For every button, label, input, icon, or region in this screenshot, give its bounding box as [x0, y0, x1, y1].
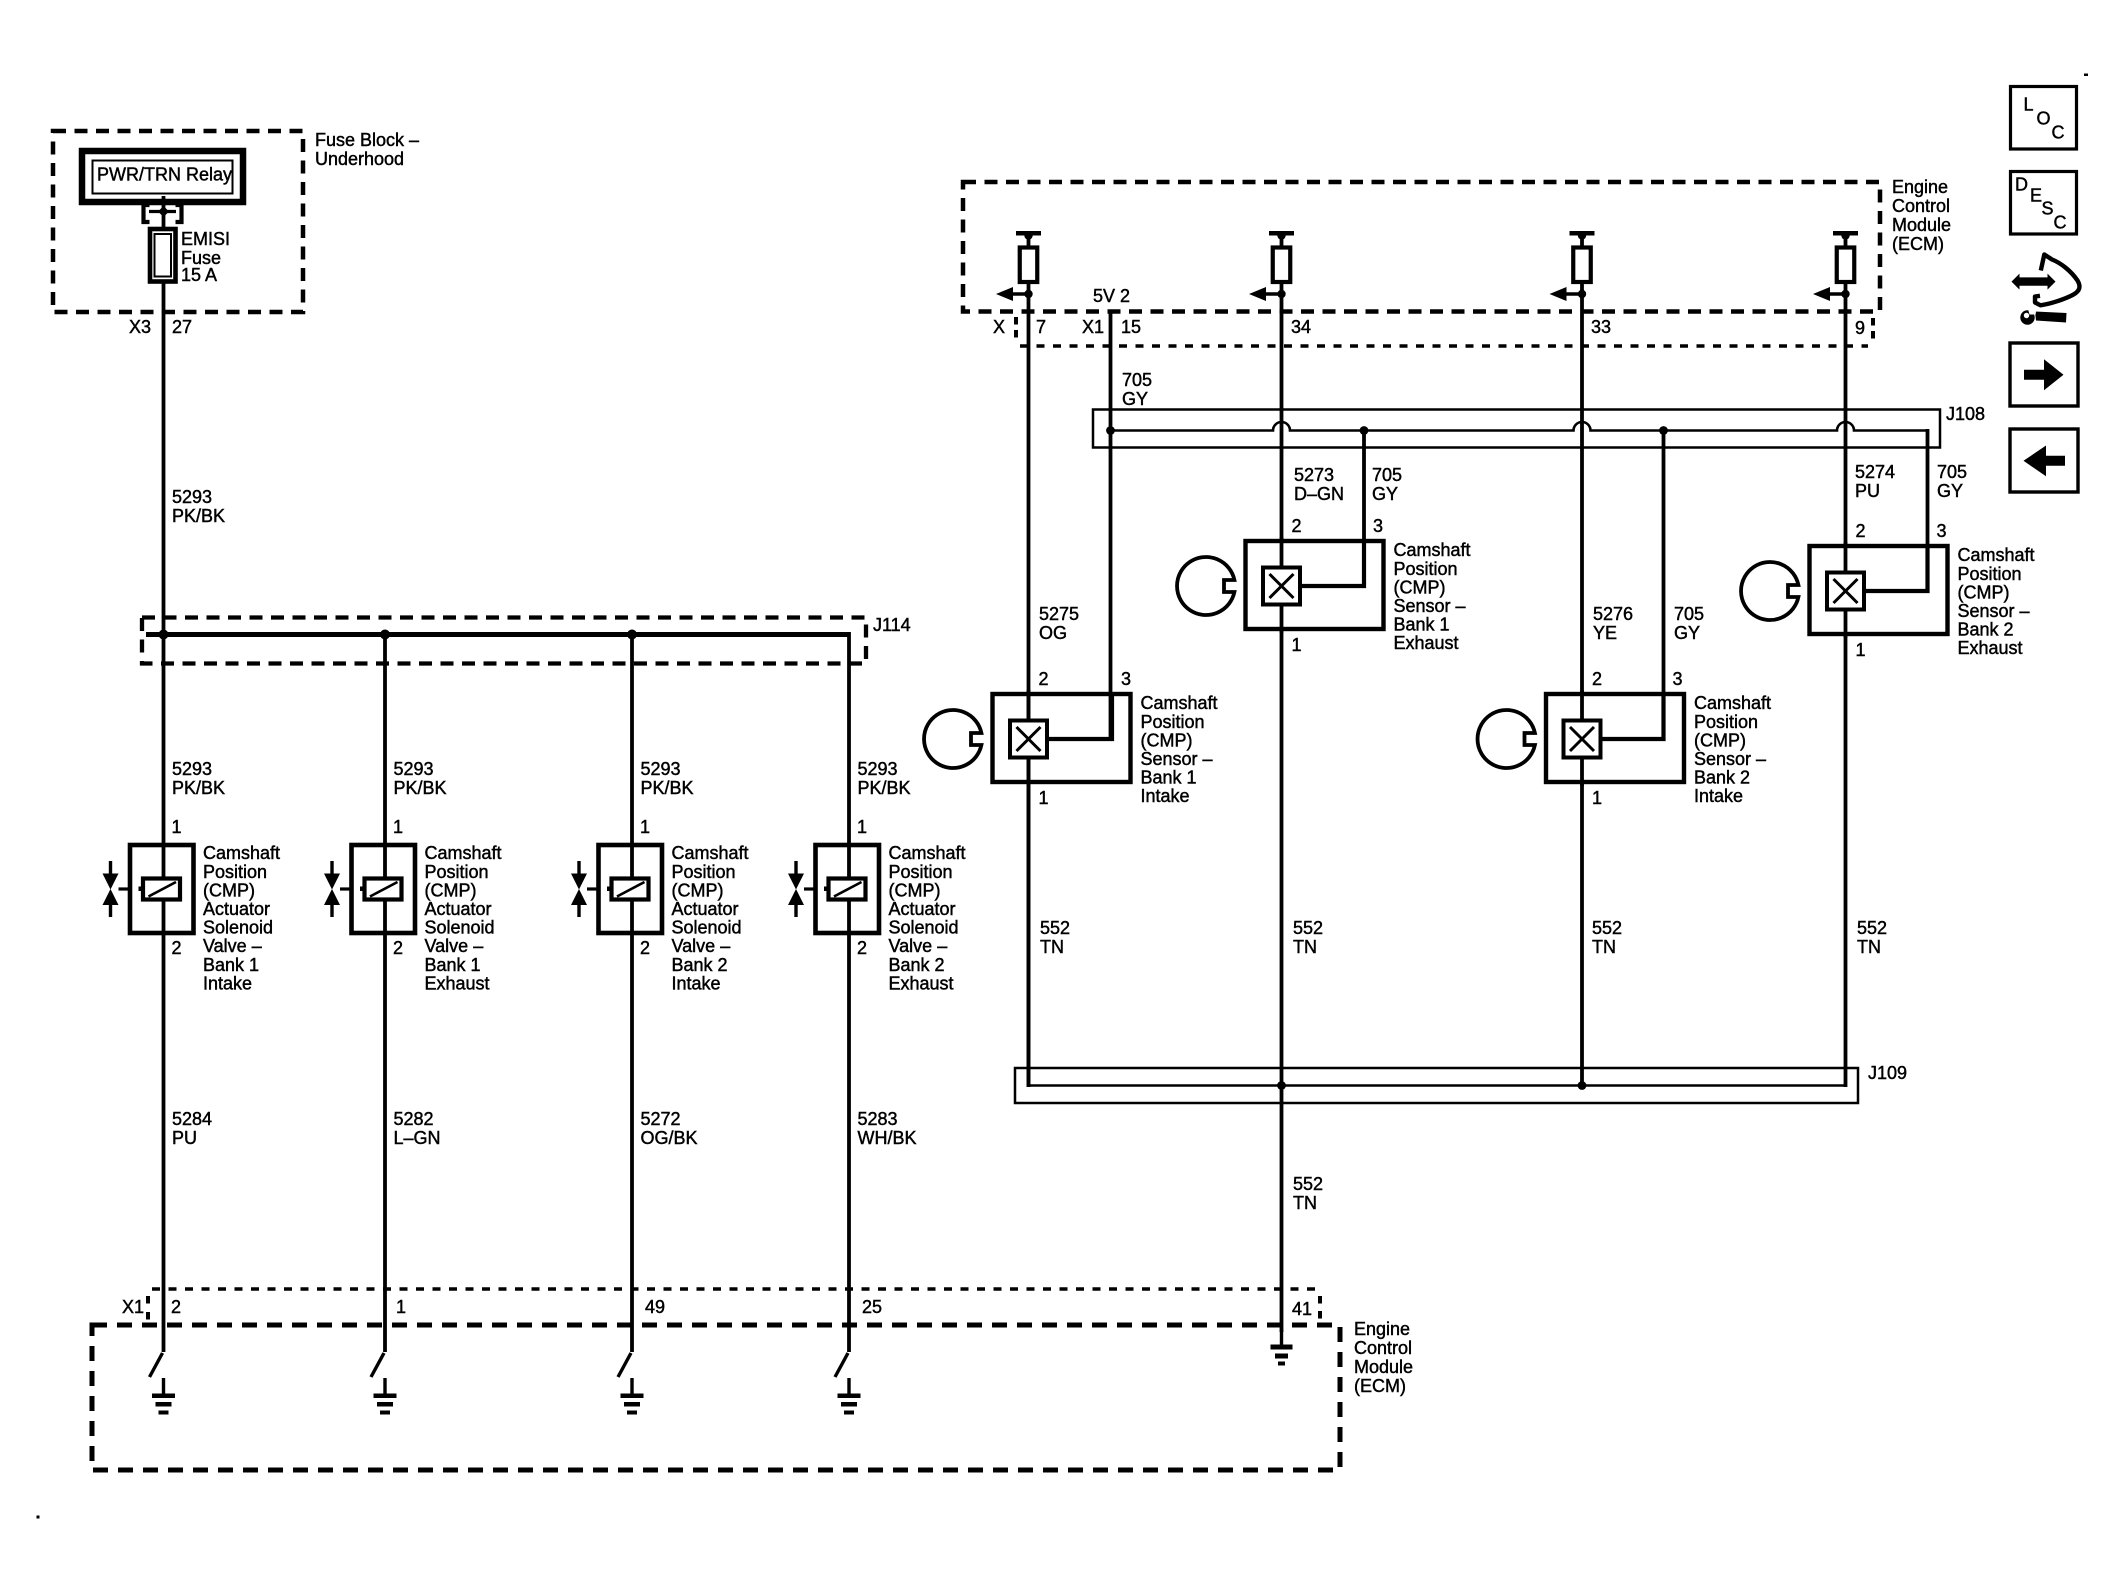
svg-text:PK/BK: PK/BK	[641, 778, 694, 798]
CMP actuator solenoid valve Bank 2 Exhaust	[788, 845, 879, 933]
ECM top connector dotted line	[1020, 344, 1868, 348]
svg-text:Position: Position	[1141, 712, 1205, 732]
wire 5293 PK/BK from fuse to J114	[162, 281, 166, 637]
wire 705 GY J108 to B1 exhaust sensor pin3	[1362, 429, 1366, 587]
svg-text:2: 2	[1856, 521, 1866, 541]
svg-text:Exhaust: Exhaust	[1394, 633, 1459, 653]
CMP sensor Bank 1 Intake pins 2,3	[1039, 669, 1132, 689]
svg-text:Actuator: Actuator	[672, 899, 739, 919]
ground symbol 4	[838, 1378, 861, 1415]
svg-text:YE: YE	[1593, 623, 1617, 643]
CMP sensor Bank 2 Intake body	[1546, 694, 1684, 782]
label Camshaft Position (CMP) Actuator Solenoid Valve Bank 1 Exhaust	[425, 843, 502, 993]
splice pack J114	[142, 618, 866, 664]
svg-text:Position: Position	[889, 862, 953, 882]
svg-text:(CMP): (CMP)	[1958, 582, 2010, 602]
svg-text:O: O	[2037, 109, 2051, 129]
svg-text:Solenoid: Solenoid	[889, 918, 959, 938]
svg-text:Engine: Engine	[1892, 177, 1948, 197]
svg-text:OG: OG	[1039, 623, 1067, 643]
svg-text:Intake: Intake	[1694, 786, 1743, 806]
wire 705 GY pin15 5V to J108	[1109, 310, 1113, 432]
ECM internal signal arrow 2	[1249, 287, 1286, 301]
svg-text:Camshaft: Camshaft	[1394, 540, 1471, 560]
svg-text:X: X	[993, 317, 1005, 337]
svg-text:1: 1	[172, 817, 182, 837]
ground symbol 1	[152, 1378, 175, 1415]
svg-text:27: 27	[172, 317, 192, 337]
svg-text:33: 33	[1591, 317, 1611, 337]
svg-text:PU: PU	[1855, 481, 1880, 501]
svg-text:Exhaust: Exhaust	[889, 973, 954, 993]
svg-text:1: 1	[396, 1297, 406, 1317]
svg-text:3: 3	[1937, 521, 1947, 541]
svg-text:Control: Control	[1354, 1338, 1412, 1358]
next page arrow icon button	[2010, 343, 2078, 406]
svg-text:2: 2	[393, 938, 403, 958]
ECM internal switch to ground pin 2	[371, 1353, 384, 1377]
svg-text:Valve –: Valve –	[672, 936, 731, 956]
reluctor wheel of CMP sensor Bank 2 Intake	[1478, 710, 1535, 768]
svg-text:705: 705	[1372, 465, 1402, 485]
wire through solenoid 4	[847, 846, 851, 933]
svg-text:5V 2: 5V 2	[1093, 286, 1130, 306]
ECM internal switch to ground pin 1	[150, 1353, 163, 1377]
svg-text:41: 41	[1292, 1299, 1312, 1319]
wire through CMP sensor Bank 2 Intake	[1580, 690, 1584, 786]
svg-text:5272: 5272	[641, 1109, 681, 1129]
ECM bottom connector dotted line	[152, 1287, 1318, 1291]
relay output terminal bracket connector	[144, 205, 182, 222]
DESC icon button	[2011, 172, 2077, 235]
svg-text:Valve –: Valve –	[889, 936, 948, 956]
svg-text:(CMP): (CMP)	[1394, 577, 1446, 597]
svg-text:5293: 5293	[858, 759, 898, 779]
ECM internal signal arrow 3	[1550, 287, 1587, 301]
svg-text:(CMP): (CMP)	[203, 880, 255, 900]
wire 5293 PK/BK branch 2	[383, 632, 387, 846]
svg-text:X3: X3	[129, 317, 151, 337]
wire through solenoid 3	[630, 846, 634, 933]
label Camshaft Position (CMP) Sensor Bank 2 Exhaust	[1958, 545, 2035, 658]
svg-text:3: 3	[1121, 669, 1131, 689]
svg-text:Module: Module	[1892, 215, 1951, 235]
fuse block underhood dashed box	[53, 131, 303, 312]
svg-text:Valve –: Valve –	[203, 936, 262, 956]
svg-text:PK/BK: PK/BK	[858, 778, 911, 798]
wire 5293 PK/BK branch 4	[847, 632, 851, 846]
wire from relay to fuse	[162, 196, 166, 232]
svg-text:Actuator: Actuator	[889, 899, 956, 919]
svg-text:Sensor –: Sensor –	[1958, 601, 2030, 621]
svg-text:Underhood: Underhood	[315, 149, 404, 169]
svg-text:Solenoid: Solenoid	[203, 918, 273, 938]
svg-text:Camshaft: Camshaft	[1141, 693, 1218, 713]
svg-text:5282: 5282	[394, 1109, 434, 1129]
label Camshaft Position (CMP) Sensor Bank 2 Intake	[1694, 693, 1771, 806]
svg-text:Actuator: Actuator	[425, 899, 492, 919]
svg-text:(CMP): (CMP)	[889, 880, 941, 900]
svg-text:Module: Module	[1354, 1357, 1413, 1377]
wire 552 TN B2 exhaust sensor to J109	[1844, 634, 1848, 1087]
svg-text:5275: 5275	[1039, 604, 1079, 624]
svg-text:5274: 5274	[1855, 462, 1895, 482]
LOC icon button	[2011, 87, 2077, 150]
svg-text:L: L	[2024, 95, 2034, 115]
svg-text:X1: X1	[1082, 317, 1104, 337]
ECM internal switch to ground pin 4	[835, 1353, 848, 1377]
CMP sensor Bank 1 Exhaust body	[1246, 541, 1384, 629]
svg-text:49: 49	[645, 1297, 665, 1317]
label Engine Control Module (ECM) bottom	[1354, 1319, 1413, 1396]
svg-text:Camshaft: Camshaft	[889, 843, 966, 863]
svg-text:15: 15	[1121, 317, 1141, 337]
svg-text:5283: 5283	[858, 1109, 898, 1129]
svg-text:Bank 1: Bank 1	[1394, 615, 1450, 635]
svg-text:5293: 5293	[172, 759, 212, 779]
CMP sensor Bank 2 Exhaust body	[1810, 546, 1948, 634]
svg-text:Position: Position	[425, 862, 489, 882]
tiny reference tick top right	[2084, 74, 2088, 77]
svg-text:552: 552	[1293, 918, 1323, 938]
svg-text:552: 552	[1293, 1174, 1323, 1194]
svg-text:(CMP): (CMP)	[672, 880, 724, 900]
swap/compare tool icon	[2012, 255, 2080, 325]
wire 5273 D-GN pin34 to B1 exhaust sensor	[1280, 280, 1284, 543]
svg-text:E: E	[2030, 186, 2042, 206]
svg-text:5293: 5293	[641, 759, 681, 779]
wire 5272 OG/BK to ECM	[630, 933, 634, 1352]
CMP actuator solenoid valve Bank 1 Intake	[103, 845, 194, 933]
svg-text:C: C	[2052, 123, 2065, 143]
wire 5275 OG pin7 to B1 intake sensor	[1027, 280, 1031, 1087]
label Camshaft Position (CMP) Sensor Bank 1 Intake	[1141, 693, 1218, 806]
svg-text:Bank 1: Bank 1	[203, 955, 259, 975]
engine control module bottom dashed box	[92, 1325, 1340, 1470]
svg-text:2: 2	[1292, 516, 1302, 536]
svg-text:GY: GY	[1122, 389, 1148, 409]
ground symbol 2	[374, 1378, 397, 1415]
svg-text:34: 34	[1291, 317, 1311, 337]
svg-text:2: 2	[1592, 669, 1602, 689]
svg-text:2: 2	[1039, 669, 1049, 689]
label Camshaft Position (CMP) Actuator Solenoid Valve Bank 1 Intake	[203, 843, 280, 993]
svg-text:TN: TN	[1293, 937, 1317, 957]
wire 705 GY J108 to B1 intake sensor pin3	[1109, 429, 1113, 739]
label Fuse Block - Underhood	[315, 130, 419, 169]
svg-text:(CMP): (CMP)	[425, 880, 477, 900]
svg-text:Valve –: Valve –	[425, 936, 484, 956]
svg-text:OG/BK: OG/BK	[641, 1128, 698, 1148]
svg-text:GY: GY	[1674, 623, 1700, 643]
svg-text:GY: GY	[1937, 481, 1963, 501]
svg-text:Camshaft: Camshaft	[672, 843, 749, 863]
svg-text:2: 2	[640, 938, 650, 958]
svg-text:Camshaft: Camshaft	[1694, 693, 1771, 713]
svg-text:705: 705	[1937, 462, 1967, 482]
svg-text:Bank 2: Bank 2	[672, 955, 728, 975]
previous page arrow icon button	[2010, 429, 2078, 492]
reluctor wheel of CMP sensor Bank 1 Exhaust	[1177, 557, 1234, 615]
ECM internal resistor 2 with pull-up terminal	[1269, 231, 1294, 282]
svg-text:1: 1	[393, 817, 403, 837]
svg-text:TN: TN	[1293, 1193, 1317, 1213]
svg-text:Bank 2: Bank 2	[1694, 768, 1750, 788]
wire 705 GY J108 to B2 exhaust sensor pin3	[1926, 429, 1930, 591]
svg-text:Intake: Intake	[1141, 786, 1190, 806]
svg-text:7: 7	[1036, 317, 1046, 337]
svg-text:J114: J114	[873, 615, 911, 635]
J108 junction dots	[1106, 426, 1668, 435]
wire 552 TN B1 intake sensor to J109	[1027, 782, 1031, 1087]
ECM internal switch to ground pin 3	[618, 1353, 631, 1377]
wire through CMP sensor Bank 1 Intake	[1027, 690, 1031, 786]
svg-text:X1: X1	[122, 1297, 144, 1317]
svg-text:S: S	[2042, 199, 2054, 219]
splice pack J109	[1015, 1068, 1858, 1103]
J108 bus wire with hops	[1107, 422, 1928, 446]
reluctor wheel of CMP sensor Bank 1 Intake	[924, 710, 981, 768]
CMP actuator solenoid valve Bank 1 Exhaust	[324, 845, 415, 933]
svg-text:5276: 5276	[1593, 604, 1633, 624]
svg-text:Position: Position	[203, 862, 267, 882]
label Engine Control Module (ECM) top	[1892, 177, 1951, 254]
svg-text:Exhaust: Exhaust	[1958, 638, 2023, 658]
svg-text:Bank 2: Bank 2	[889, 955, 945, 975]
wire through solenoid 1	[162, 846, 166, 933]
label Camshaft Position (CMP) Sensor Bank 1 Exhaust	[1394, 540, 1471, 653]
CMP sensor Bank 2 Intake pins 2,3	[1592, 669, 1683, 689]
svg-text:705: 705	[1122, 370, 1152, 390]
svg-text:Exhaust: Exhaust	[425, 973, 490, 993]
ground symbol at ECM pin 41	[1271, 1330, 1293, 1366]
svg-text:Bank 1: Bank 1	[425, 955, 481, 975]
svg-text:5293: 5293	[172, 487, 212, 507]
svg-text:1: 1	[1292, 635, 1302, 655]
svg-text:PK/BK: PK/BK	[172, 506, 225, 526]
wire 5276 YE pin33 to B2 intake sensor	[1580, 280, 1584, 696]
ECM internal signal arrow 1	[996, 287, 1033, 301]
wire through CMP sensor Bank 1 Exhaust	[1280, 537, 1284, 633]
svg-text:552: 552	[1857, 918, 1887, 938]
svg-text:25: 25	[862, 1297, 882, 1317]
svg-text:1: 1	[1856, 640, 1866, 660]
wire 705 GY J108 to B2 intake sensor pin3	[1662, 429, 1666, 739]
engine control module top dashed box	[963, 182, 1880, 312]
svg-text:15 A: 15 A	[181, 265, 217, 285]
svg-text:TN: TN	[1040, 937, 1064, 957]
label EMISI Fuse 15 A	[181, 229, 230, 285]
svg-text:Position: Position	[1694, 712, 1758, 732]
label Camshaft Position (CMP) Actuator Solenoid Valve Bank 2 Intake	[672, 843, 749, 993]
wire 552 TN B2 intake sensor to J109	[1580, 782, 1584, 1087]
ECM internal signal arrow 4	[1813, 287, 1850, 301]
svg-text:(CMP): (CMP)	[1141, 730, 1193, 750]
svg-text:Bank 2: Bank 2	[1958, 620, 2014, 640]
ECM internal resistor 3 with pull-up terminal	[1570, 231, 1595, 282]
svg-text:Bank 1: Bank 1	[1141, 768, 1197, 788]
wire through solenoid 2	[383, 846, 387, 933]
svg-text:WH/BK: WH/BK	[858, 1128, 917, 1148]
svg-text:Solenoid: Solenoid	[672, 918, 742, 938]
svg-text:552: 552	[1040, 918, 1070, 938]
svg-text:(ECM): (ECM)	[1892, 234, 1944, 254]
svg-text:Camshaft: Camshaft	[1958, 545, 2035, 565]
wire 5293 PK/BK branch 1	[162, 632, 166, 846]
ECM top pin row X 7 X1 15 34 33 9	[993, 317, 1875, 339]
svg-text:GY: GY	[1372, 484, 1398, 504]
svg-text:(CMP): (CMP)	[1694, 730, 1746, 750]
ECM internal resistor 1 with pull-up terminal	[1016, 231, 1041, 282]
wire 5274 PU pin9 to B2 exhaust sensor	[1844, 280, 1848, 548]
svg-text:PK/BK: PK/BK	[394, 778, 447, 798]
svg-text:(ECM): (ECM)	[1354, 1376, 1406, 1396]
svg-text:EMISI: EMISI	[181, 229, 230, 249]
svg-text:Fuse Block –: Fuse Block –	[315, 130, 419, 150]
wire 5293 PK/BK branch 3	[630, 632, 634, 846]
svg-text:TN: TN	[1592, 937, 1616, 957]
ground symbol 3	[621, 1378, 644, 1415]
wire 552 TN B1 exhaust sensor to J109	[1280, 629, 1284, 1087]
svg-text:Actuator: Actuator	[203, 899, 270, 919]
svg-text:1: 1	[1039, 788, 1049, 808]
svg-text:Control: Control	[1892, 196, 1950, 216]
J109 bus wire	[1029, 1081, 1846, 1090]
wire through CMP sensor Bank 2 Exhaust	[1844, 542, 1848, 638]
svg-text:D–GN: D–GN	[1294, 484, 1344, 504]
J114 bus wire	[146, 630, 849, 640]
CMP sensor Bank 1 Exhaust pins 2,3	[1292, 516, 1384, 536]
CMP sensor Bank 2 Exhaust pins 2,3	[1856, 521, 1947, 541]
svg-text:5293: 5293	[394, 759, 434, 779]
svg-text:C: C	[2054, 213, 2067, 233]
reluctor wheel of CMP sensor Bank 2 Exhaust	[1741, 562, 1798, 620]
svg-text:2: 2	[857, 938, 867, 958]
tiny speck bottom left	[37, 1516, 40, 1519]
svg-text:D: D	[2015, 175, 2028, 195]
svg-text:5273: 5273	[1294, 465, 1334, 485]
svg-text:2: 2	[172, 938, 182, 958]
svg-text:TN: TN	[1857, 937, 1881, 957]
svg-text:2: 2	[171, 1297, 181, 1317]
svg-text:J108: J108	[1946, 404, 1985, 424]
svg-text:Engine: Engine	[1354, 1319, 1410, 1339]
svg-text:PWR/TRN Relay: PWR/TRN Relay	[97, 165, 232, 185]
svg-text:L–GN: L–GN	[394, 1128, 441, 1148]
splice pack J108	[1093, 410, 1940, 448]
svg-text:Sensor –: Sensor –	[1141, 749, 1213, 769]
svg-text:Solenoid: Solenoid	[425, 918, 495, 938]
svg-text:552: 552	[1592, 918, 1622, 938]
ECM internal resistor 4 with pull-up terminal	[1833, 231, 1858, 282]
svg-text:Intake: Intake	[203, 973, 252, 993]
svg-text:Position: Position	[1394, 559, 1458, 579]
CMP sensor Bank 1 Intake body	[993, 694, 1131, 782]
wire 5283 WH/BK to ECM	[847, 933, 851, 1352]
CMP actuator solenoid valve Bank 2 Intake	[571, 845, 662, 933]
svg-text:1: 1	[640, 817, 650, 837]
svg-text:Camshaft: Camshaft	[203, 843, 280, 863]
svg-text:Intake: Intake	[672, 973, 721, 993]
wire 552 TN J109 to ECM pin 41	[1280, 1085, 1284, 1332]
svg-text:705: 705	[1674, 604, 1704, 624]
svg-text:Position: Position	[1958, 564, 2022, 584]
svg-text:3: 3	[1673, 669, 1683, 689]
label Camshaft Position (CMP) Actuator Solenoid Valve Bank 2 Exhaust	[889, 843, 966, 993]
fuse EMISI 15A symbol	[150, 229, 176, 282]
relay PWR/TRN Relay	[82, 151, 243, 202]
pin X3 27 on fuse block	[129, 317, 192, 337]
svg-text:Sensor –: Sensor –	[1394, 596, 1466, 616]
svg-text:PU: PU	[172, 1128, 197, 1148]
pin row X1 2 1 49 25 41	[122, 1296, 1322, 1320]
svg-text:5284: 5284	[172, 1109, 212, 1129]
svg-text:Camshaft: Camshaft	[425, 843, 502, 863]
svg-text:3: 3	[1373, 516, 1383, 536]
svg-text:PK/BK: PK/BK	[172, 778, 225, 798]
wire 5284 PU to ECM	[162, 933, 166, 1352]
svg-text:1: 1	[857, 817, 867, 837]
svg-text:J109: J109	[1868, 1063, 1907, 1083]
svg-text:Sensor –: Sensor –	[1694, 749, 1766, 769]
svg-text:9: 9	[1855, 318, 1865, 338]
wire 5282 L–GN to ECM	[383, 933, 387, 1352]
svg-text:1: 1	[1592, 788, 1602, 808]
svg-text:Position: Position	[672, 862, 736, 882]
